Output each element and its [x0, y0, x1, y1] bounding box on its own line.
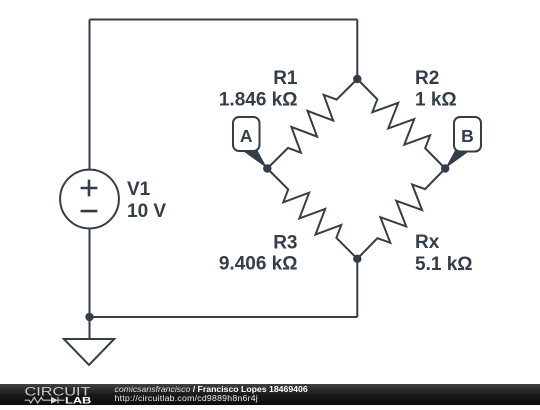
svg-text:V1: V1: [127, 179, 151, 200]
resistor R2: [357, 79, 445, 169]
svg-text:R2: R2: [415, 68, 439, 89]
wire left vertical upper (V1 top to top wire): [89, 20, 91, 170]
svg-text:10 V: 10 V: [127, 201, 166, 222]
footer attribution text: [115, 385, 308, 405]
junction dot bridge top node: [353, 75, 361, 83]
wire bottom horizontal: [90, 316, 358, 318]
node B flag pointer: [445, 144, 469, 169]
svg-text:9.406 kΩ: 9.406 kΩ: [219, 254, 298, 275]
node A flag box: [233, 117, 260, 151]
resistor R1: [267, 79, 357, 169]
ground: [64, 339, 114, 365]
wire ground stem: [89, 317, 91, 339]
svg-text:1.846 kΩ: 1.846 kΩ: [219, 89, 298, 110]
svg-text:LAB: LAB: [65, 395, 91, 405]
CircuitLab logo: [0, 384, 110, 405]
wire bridge bottom node to bottom wire: [356, 259, 358, 317]
footer bar: [0, 384, 540, 405]
voltage source V1: [60, 170, 119, 229]
svg-text:A: A: [240, 126, 253, 146]
wire right vertical (top wire to bridge top node): [356, 20, 358, 80]
junction dot bridge right node B: [441, 164, 449, 172]
svg-text:R1: R1: [273, 68, 298, 89]
svg-text:R3: R3: [273, 233, 297, 254]
wire top horizontal from V1 to bridge top: [90, 19, 358, 21]
node A flag pointer: [243, 144, 267, 169]
junction dot bridge bottom node: [353, 255, 361, 263]
svg-text:B: B: [461, 126, 474, 146]
resistor R3: [267, 169, 357, 259]
junction dot ground junction: [85, 313, 93, 321]
svg-text:Rx: Rx: [415, 232, 440, 253]
svg-text:1 kΩ: 1 kΩ: [415, 89, 457, 110]
resistor Rx: [357, 169, 445, 259]
svg-text:5.1 kΩ: 5.1 kΩ: [415, 254, 473, 275]
wire left vertical lower (V1 bottom to bottom wire): [89, 228, 91, 317]
junction dot bridge left node A: [263, 164, 271, 172]
node B flag box: [454, 117, 481, 152]
